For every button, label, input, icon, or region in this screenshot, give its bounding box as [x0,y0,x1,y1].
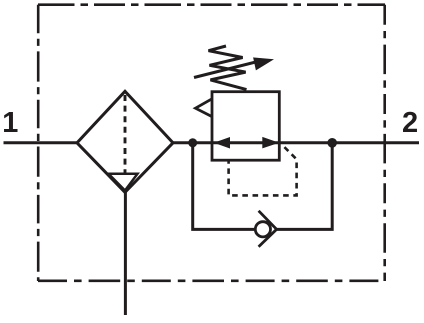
enclosure border (dash-dot assembly frame) [38,5,385,281]
vent chevron on regulator left side [196,99,213,117]
regulator flow arrow right [262,137,279,149]
adjustment arrow head [253,57,274,70]
filter element (dashed centre line) [124,95,127,173]
wire: bypass branch left leg and bottom run [193,143,256,230]
check valve V1 ball (circle) [255,222,270,237]
wire: condensate drain line [124,191,127,316]
node B: junction regulator outlet / bypass [327,138,337,148]
adjustment arrow shaft through spring [194,62,257,78]
wire: filter outlet to regulator and on to port 2 [173,141,420,144]
water separator drain triangle [109,174,138,191]
wire: inlet line from port 1 to filter [4,141,79,144]
wire: bypass branch bottom run right and right leg [277,143,333,230]
node A: junction filter outlet / bypass [188,138,197,147]
port 2 label [403,112,417,132]
regulator flow arrow left [214,137,230,149]
adjustable spring (zigzag) on regulator top [209,46,247,90]
port 1 label [4,112,17,132]
regulator U1 body (box) [212,92,279,161]
check valve seat [259,211,277,247]
pilot control line (dashed) [229,145,297,195]
filter F1 body (diamond) [77,91,173,192]
